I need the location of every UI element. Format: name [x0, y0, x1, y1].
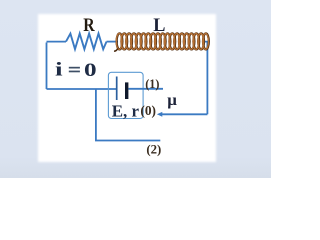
wire inductor to top-right corner and right vertical [203, 42, 207, 115]
wire resistor to inductor [107, 41, 119, 43]
label i = 0 [55, 61, 97, 81]
svg-text:R: R [83, 15, 95, 36]
battery E,r thick plate [125, 82, 128, 99]
battery E,r thin plate [116, 77, 118, 101]
svg-text:(2): (2) [146, 142, 161, 156]
svg-text:i: i [55, 61, 63, 81]
wire branch down from node to bottom [96, 89, 160, 141]
resistor R [66, 34, 107, 50]
wire top-left to resistor [47, 41, 67, 43]
inductor L coil [114, 33, 209, 51]
svg-text:L: L [153, 15, 165, 36]
svg-text:E, r: E, r [112, 101, 140, 120]
svg-text:(1): (1) [145, 77, 159, 91]
switch lever arrowhead [157, 112, 163, 117]
wire battery to contact (1) [129, 88, 164, 90]
white schematic panel [38, 14, 216, 162]
wire left vertical [46, 43, 48, 90]
wire arrow from right side to contact (0) [160, 113, 207, 115]
battery box [108, 72, 143, 118]
svg-text:0: 0 [84, 61, 97, 81]
wire middle horizontal to battery [47, 88, 117, 90]
svg-text:(0): (0) [140, 103, 156, 118]
svg-text:μ: μ [167, 92, 177, 109]
